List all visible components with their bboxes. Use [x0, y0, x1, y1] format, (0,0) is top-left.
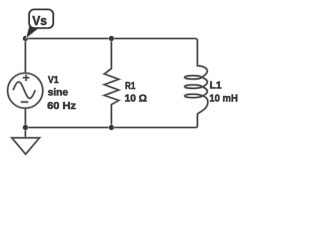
svg-text:sine: sine [48, 88, 69, 99]
svg-text:60 Hz: 60 Hz [47, 101, 76, 112]
svg-text:V1: V1 [48, 75, 59, 86]
circuit artwork: main stroke pass [8, 39, 208, 155]
svg-text:R1: R1 [125, 81, 136, 92]
label L1 designator [210, 81, 222, 92]
svg-text:10 Ω: 10 Ω [125, 94, 147, 105]
svg-text:10 mH: 10 mH [209, 93, 237, 104]
label V1 designator [48, 75, 59, 86]
node Vs label flag (tail + box + text) [26, 10, 53, 39]
label R1 value "10 Ω" [125, 94, 147, 105]
label R1 designator [125, 81, 136, 92]
junction dot: node Vs (top-left) [22, 36, 28, 42]
label V1 value "60 Hz" [47, 101, 76, 112]
svg-text:Vs: Vs [32, 13, 47, 28]
label V1 type "sine" [48, 88, 69, 99]
label L1 value "10 mH" [209, 93, 237, 104]
svg-text:L1: L1 [210, 81, 222, 92]
junction dot: V1 bottom [22, 125, 28, 131]
circuit artwork: soft halo pass [8, 39, 208, 155]
junction dot: R1 bottom [108, 125, 114, 131]
junction dot: R1 top [108, 36, 114, 42]
